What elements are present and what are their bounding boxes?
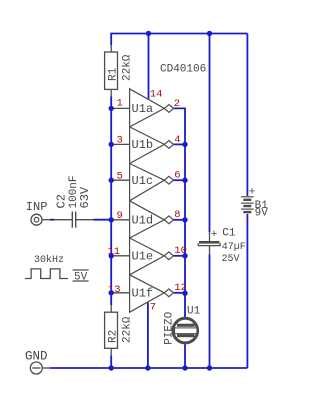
svg-text:3: 3 [116, 135, 122, 147]
junction pin 3 [109, 142, 114, 147]
junction GND pin 7 [145, 365, 150, 370]
svg-text:U1e: U1e [132, 249, 154, 263]
wire output stub pin 12 [174, 292, 186, 294]
junction pin 10 [182, 253, 187, 258]
wire C1 branch lower [209, 254, 211, 368]
pin stub pin 3 [111, 143, 129, 145]
wire right battery rail upper [246, 34, 248, 197]
svg-text:U1: U1 [187, 305, 201, 317]
svg-text:25V: 25V [222, 254, 240, 265]
wire output stub pin 8 [174, 219, 186, 221]
svg-text:CD40106: CD40106 [160, 64, 206, 76]
wire bottom GND rail [50, 367, 247, 369]
wire output stub pin 6 [174, 179, 186, 181]
op-amp gate U1a [130, 89, 174, 127]
svg-text:5: 5 [116, 170, 122, 182]
wire C1 branch upper [209, 34, 211, 233]
junction pin 5 [109, 178, 114, 183]
svg-text:6: 6 [174, 170, 180, 182]
wire C2 to pin 9 [94, 219, 112, 221]
svg-text:R1: R1 [108, 67, 120, 81]
pin stub pin 5 [111, 179, 129, 181]
junction GND R2 [109, 365, 114, 370]
ground GND [30, 362, 50, 374]
wire right battery rail lower [246, 214, 248, 368]
svg-text:C1: C1 [222, 228, 236, 240]
wire piezo bottom to GND rail [184, 344, 186, 368]
svg-text:22kΩ: 22kΩ [122, 316, 134, 343]
junction pin 11 [109, 253, 114, 258]
svg-text:PIEZO: PIEZO [163, 311, 175, 344]
junction pin 1 [109, 106, 114, 111]
op-amp gate U1d [130, 201, 174, 238]
op-amp gate U1e [130, 238, 174, 275]
svg-text:22kΩ: 22kΩ [122, 54, 134, 81]
capacitor C2 [55, 212, 94, 228]
junction GND C1 [207, 365, 212, 370]
connector INP [31, 214, 50, 225]
op-amp gate U1b [130, 127, 174, 164]
wire INP to C2 [50, 219, 55, 221]
svg-text:4: 4 [174, 134, 180, 146]
pin stub pin 13 [111, 292, 129, 294]
pin stub pin 9 [111, 219, 129, 221]
svg-text:U1b: U1b [132, 138, 154, 152]
svg-text:7: 7 [150, 302, 156, 314]
svg-text:2: 2 [174, 98, 180, 110]
svg-text:9V: 9V [255, 208, 269, 220]
wire pin 14 to VCC [148, 34, 150, 100]
resistor R2 [105, 305, 118, 355]
wire top VCC rail [111, 34, 247, 46]
junction pin 12 [182, 291, 187, 296]
svg-text:14: 14 [150, 89, 163, 101]
svg-text:U1d: U1d [132, 213, 154, 227]
svg-text:C2: C2 [55, 194, 69, 208]
capacitor C1 [198, 232, 220, 254]
junction pin 4 [182, 142, 187, 147]
wire output stub pin 10 [174, 255, 186, 257]
svg-text:GND: GND [25, 349, 48, 363]
annotation 5V with over/underline [73, 270, 89, 283]
wire pin 7 to GND rail [147, 303, 149, 369]
svg-text:47µF: 47µF [222, 242, 246, 253]
wire input rail R1 to R2 [110, 96, 112, 305]
svg-text:U1c: U1c [132, 174, 154, 188]
wire output stub pin 4 [174, 143, 186, 145]
svg-text:+: + [211, 229, 218, 241]
svg-text:+: + [249, 187, 256, 199]
svg-text:U1a: U1a [132, 102, 154, 116]
svg-text:8: 8 [174, 209, 180, 221]
resistor R1 [105, 45, 118, 96]
svg-text:INP: INP [26, 200, 48, 214]
junction VCC C1 [207, 31, 212, 36]
svg-text:63V: 63V [78, 186, 92, 208]
svg-text:30kHz: 30kHz [34, 254, 64, 266]
pin stub pin 11 [111, 255, 129, 257]
annotation 30kHz square wave [25, 269, 68, 279]
junction pin 8 [182, 217, 187, 222]
junction GND piezo [182, 365, 187, 370]
svg-text:U1f: U1f [132, 286, 154, 300]
wire output rail pins 2-12 [174, 108, 186, 317]
op-amp gate U1c [130, 164, 174, 201]
junction pin 9 [109, 217, 114, 222]
junction VCC pin 14 [146, 31, 151, 36]
op-amp gate U1f [130, 275, 174, 312]
wire R2 bottom to GND rail [110, 355, 112, 368]
junction pin 6 [182, 178, 187, 183]
piezo transducer U1 [173, 318, 198, 343]
pin stub pin 1 [111, 107, 129, 109]
junction pin 13 [109, 290, 114, 295]
battery B1 [241, 197, 254, 212]
svg-text:R2: R2 [108, 330, 120, 343]
svg-text:9: 9 [116, 210, 122, 222]
svg-text:1: 1 [116, 98, 122, 110]
